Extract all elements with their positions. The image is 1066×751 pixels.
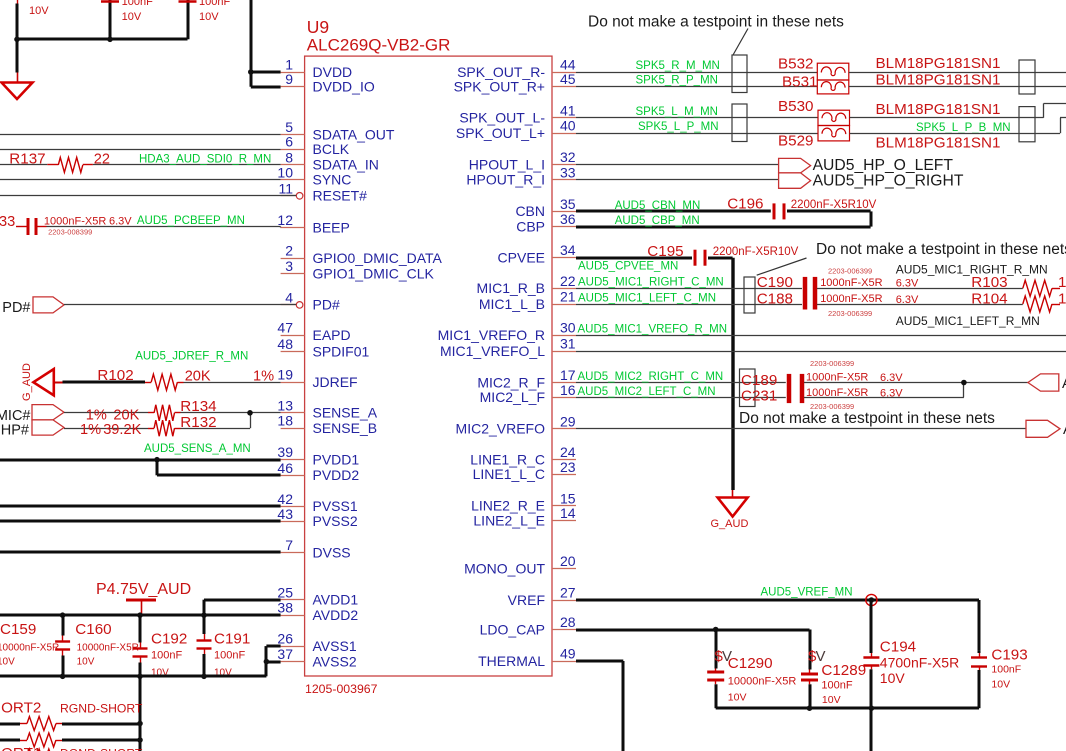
svg-text:100nF: 100nF [199,0,230,8]
pin 17 MIC2_R_F [477,367,576,390]
net SPK5_L_P_MN [638,121,719,133]
svg-text:SPK_OUT_L+: SPK_OUT_L+ [456,125,545,141]
part number 2203-006399 d [810,402,854,411]
wire THERMAL [576,661,623,751]
capacitor lead top-left C(10V) [16,0,19,39]
svg-text:SENSE_A: SENSE_A [313,405,378,421]
svg-text:PD#: PD# [2,300,30,316]
junction bottom bus C160 [60,674,66,680]
wire RGND b [62,739,140,742]
label B532 [778,56,813,73]
pointer line 1 [733,29,748,56]
wire CPVEE to ground [708,258,733,490]
pointer line 2 [757,258,807,275]
pin 5 SDATA_OUT [281,119,395,142]
svg-text:10000nF-X5R: 10000nF-X5R [728,676,797,688]
svg-text:C195: C195 [647,243,683,260]
svg-text:36: 36 [560,211,576,227]
IC U9 ALC269Q-VB2-GR body [305,56,552,676]
svg-text:6: 6 [285,134,293,150]
svg-text:28: 28 [560,614,576,630]
pin 14 LINE2_L_E [473,505,576,528]
svg-text:JDREF: JDREF [313,374,358,390]
svg-text:9: 9 [285,71,293,87]
pin 40 SPK_OUT_L+ [456,118,576,141]
svg-text:26: 26 [277,631,293,647]
net SPK5_L_P_B_MN [916,122,1011,134]
wire CPVEE [576,257,692,260]
wire MIC2_R a [576,382,786,384]
svg-text:27: 27 [560,585,576,601]
label 1% 20K R134 [86,398,217,423]
pin 7 DVSS [281,537,351,560]
svg-text:P4.75V_AUD: P4.75V_AUD [96,581,191,598]
pin 49 THERMAL [478,646,576,669]
svg-text:33: 33 [560,164,576,180]
port PD# [2,297,64,316]
net SPK5_R_P_MN [636,75,718,87]
svg-text:46: 46 [277,460,293,476]
wire to pin 9 [251,86,281,89]
svg-text:RESET#: RESET# [313,188,368,204]
svg-text:C193: C193 [991,647,1027,664]
net SPK5_R_M_MN [636,60,720,72]
svg-text:10V: 10V [122,11,142,23]
svg-text:1: 1 [285,57,293,73]
svg-text:R137: R137 [9,151,45,168]
pin 42 PVSS1 [277,491,357,514]
svg-text:PVSS2: PVSS2 [313,513,358,529]
part number 1205-003967 [305,682,378,696]
svg-text:4: 4 [285,289,293,305]
note do-not-testpoint 3 [739,410,995,427]
svg-text:10: 10 [277,164,293,180]
svg-text:1000nF-X5R: 1000nF-X5R [820,293,882,305]
svg-text:17: 17 [560,367,576,383]
svg-text:C191: C191 [214,631,250,648]
wire SPK_OUT_L+ a [576,133,818,135]
svg-text:U9: U9 [307,17,329,37]
svg-text:A: A [1062,376,1066,392]
svg-text:SENSE_B: SENSE_B [313,420,378,436]
svg-text:LINE2_L_E: LINE2_L_E [473,512,545,528]
svg-text:AUD5_CBN_MN: AUD5_CBN_MN [615,200,701,212]
wire G_AUD to R102 [63,381,146,384]
svg-text:MIC1_VREFO_L: MIC1_VREFO_L [440,343,545,359]
pin 48 SPDIF01 [277,336,369,359]
svg-text:24: 24 [560,444,576,460]
svg-text:10V: 10V [991,679,1010,691]
svg-text:41: 41 [560,102,576,118]
junction DVDD [248,69,254,75]
net-tie NT6 [740,369,756,407]
svg-text:AVSS1: AVSS1 [313,638,357,654]
port HP# [1,420,64,439]
net AUD5_PCBEEP_MN [137,215,245,227]
svg-text:C188: C188 [757,290,793,307]
svg-text:C1290: C1290 [728,655,773,672]
label 1% 39.2K R132 [80,414,217,438]
svg-text:ALC269Q-VB2-GR: ALC269Q-VB2-GR [307,36,451,55]
refdes U9 label [307,17,451,55]
junction bottom C194 [869,705,875,711]
svg-text:SPK5_L_P_MN: SPK5_L_P_MN [638,121,719,133]
value 33 of C133 [0,214,15,230]
value 1K 1K [1058,274,1066,307]
part number 2203-006399 a [828,267,872,276]
label BLM18PG181SN1 4 [876,135,1001,152]
svg-text:43: 43 [277,506,293,522]
svg-text:49: 49 [560,646,576,662]
svg-text:38: 38 [277,600,293,616]
wire BCLK [0,149,281,151]
label BLM18PG181SN1 1 [876,55,1001,72]
svg-text:10000nF-X5R: 10000nF-X5R [77,643,139,654]
svg-text:PVDD1: PVDD1 [313,452,360,468]
capacitor C195 [695,250,705,266]
svg-text:SPK5_L_P_B_MN: SPK5_L_P_B_MN [916,122,1011,134]
net AUD5_SENS_A_MN [144,443,251,455]
pin 10 SYNC [277,164,351,187]
wire PVDD2 drop [157,460,281,476]
capacitor C160 [55,615,70,676]
resistor RGND-SHORT a [0,717,62,731]
svg-text:1K: 1K [1058,274,1066,291]
svg-text:PVDD2: PVDD2 [313,467,360,483]
wire JDREF [184,382,281,384]
svg-text:48: 48 [277,336,293,352]
svg-text:32: 32 [560,149,576,165]
capacitor C194 [863,600,879,708]
svg-text:BEEP: BEEP [313,219,350,235]
wire VREF bottom bus [716,707,979,710]
junction AVDD bus C192 [137,612,143,618]
label RSHORT2 [0,700,41,717]
svg-text:1%: 1% [80,422,101,438]
value 1000nF-X5R 6.3V c [806,372,903,385]
wire SPK_OUT_R- b [849,72,1066,74]
wire MIC# to R134 [64,412,148,414]
pin 8 SDATA_IN [281,149,379,172]
svg-text:100nF: 100nF [122,0,153,8]
resistor R137 [47,157,93,172]
pin 37 AVSS2 [277,646,356,669]
pin 32 HPOUT_L_I [469,149,576,172]
svg-text:10V: 10V [822,694,841,706]
svg-text:LDO_CAP: LDO_CAP [480,621,545,637]
svg-text:39: 39 [277,444,293,460]
wire RGND vertical [139,676,142,751]
pin 27 VREF [508,585,576,608]
label C191 [214,631,250,679]
net AUD5_MIC2_LEFT_C_MN [578,386,716,398]
svg-text:3: 3 [285,258,293,274]
resistor RGND-SHORT b [0,733,62,747]
svg-text:37: 37 [277,646,293,662]
pin 11 RESET# [278,180,367,203]
wire SPK_OUT_L+ b [850,118,1066,134]
svg-text:2203-006399: 2203-006399 [810,359,854,368]
svg-text:B531: B531 [782,74,817,91]
svg-text:34: 34 [560,242,576,258]
svg-text:SYNC: SYNC [313,172,352,188]
svg-text:13: 13 [277,397,293,413]
svg-text:15: 15 [560,490,576,506]
svg-text:BCLK: BCLK [313,141,350,157]
junction LDO_CAP C1290 [713,627,719,633]
wire MIC2_L a [576,397,786,399]
wire HPOUT_L_I [576,164,779,166]
svg-text:AVSS2: AVSS2 [313,653,357,669]
capacitor C193 [971,650,987,708]
svg-text:AUD5_CBP_MN: AUD5_CBP_MN [615,215,700,227]
svg-text:VREF: VREF [508,592,545,608]
pin 12 BEEP [277,212,349,235]
pin 34 CPVEE [498,242,576,265]
value 100nF 10V [122,0,153,23]
wire MIC1_L b [817,304,1023,306]
label BLM18PG181SN1 3 [876,101,1001,118]
net AUD5_CBN_MN [615,200,701,212]
svg-text:1205-003967: 1205-003967 [305,682,378,696]
label AUD5_MIC1_RIGHT_R_MN [896,263,1048,277]
svg-text:MONO_OUT: MONO_OUT [464,560,545,576]
capacitor C1289 [801,666,818,708]
svg-text:10V: 10V [880,670,906,686]
wire SPK_OUT_R+ b [849,86,1066,88]
svg-text:PD#: PD# [313,297,340,313]
svg-text:LINE1_L_C: LINE1_L_C [473,466,545,482]
label B531 [782,74,817,91]
svg-text:BLM18PG181SN1: BLM18PG181SN1 [876,55,1001,72]
wire RGND a [62,723,140,726]
svg-text:MIC2_L_F: MIC2_L_F [480,389,545,405]
wire DVDD vertical [250,0,253,87]
resistor R132 [148,420,181,436]
value 1000nF-X5R 6.3V d [806,387,903,400]
label R137 22 [9,151,110,168]
svg-text:EAPD: EAPD [313,327,351,343]
wire ground drop [16,39,20,82]
capacitor C133 BEEP [16,218,47,235]
wire AVSS1 AVSS2 riser [266,646,281,676]
label C190 C188 [757,274,793,307]
svg-text:33: 33 [0,214,15,230]
pin 35 CBN [515,196,576,219]
value 1000nF-X5R 6.3V [44,216,132,228]
junction AVDD bus C160 [60,612,66,618]
svg-text:AUD5_MIC1_LEFT_R_MN: AUD5_MIC1_LEFT_R_MN [896,314,1040,328]
svg-text:SPK5_R_P_MN: SPK5_R_P_MN [636,75,718,87]
svg-text:4700nF-X5R: 4700nF-X5R [880,655,959,671]
capacitor top C(100nF) lead [101,0,119,39]
svg-text:HPOUT_R_I: HPOUT_R_I [466,172,545,188]
pin 19 JDREF [277,367,357,390]
pin 28 LDO_CAP [480,614,576,637]
svg-text:21: 21 [560,289,576,305]
svg-text:HDA3_AUD_SDI0_R_MN: HDA3_AUD_SDI0_R_MN [139,154,271,166]
svg-text:10V: 10V [29,5,49,17]
capacitor C191 [197,600,212,677]
svg-text:12: 12 [277,212,293,228]
svg-text:LINE1_R_C: LINE1_R_C [470,451,545,467]
value 2200nF-X5R10V C195 [713,246,799,258]
junction MIC2 [961,380,967,386]
svg-text:DVDD_IO: DVDD_IO [313,79,375,95]
net AUD5_MIC1_LEFT_C_MN [578,292,716,304]
wire LDO_CAP [576,630,810,667]
label RGND-SHORT [60,702,143,716]
wire CBP [576,226,871,229]
svg-text:AUD5_SENS_A_MN: AUD5_SENS_A_MN [144,443,251,455]
svg-text:44: 44 [560,57,576,73]
junction top bus left [14,37,20,43]
pin 22 MIC1_R_B [477,273,576,296]
svg-text:18: 18 [277,413,293,429]
svg-text:B530: B530 [778,98,813,115]
label C192 [151,631,187,679]
pin 44 SPK_OUT_R- [457,57,576,80]
svg-text:C1289: C1289 [821,662,866,679]
wire CBN right [787,211,871,227]
pin 1 DVDD [281,57,353,80]
net AUD5_CPVEE_MN [578,261,678,273]
svg-text:14: 14 [560,505,576,521]
ferrite bead B531 [817,80,849,94]
svg-text:AUD5_CPVEE_MN: AUD5_CPVEE_MN [578,261,678,273]
pin 45 SPK_OUT_R+ [454,71,576,94]
svg-text:2200nF-X5R10V: 2200nF-X5R10V [791,199,877,211]
pin 3 GPIO1_DMIC_CLK [281,258,435,281]
svg-text:AUD5_PCBEEP_MN: AUD5_PCBEEP_MN [137,215,245,227]
wire HP# to R132 [64,428,148,430]
value 10V [29,5,49,17]
capacitor C196 [774,203,784,219]
wire PVSS1 [0,505,281,508]
svg-text:R103: R103 [971,274,1007,291]
wire DVSS [0,551,281,554]
resistor R104 [1023,296,1060,312]
label B530 [778,98,813,115]
svg-text:16: 16 [560,382,576,398]
wire AVSS bottom bus [0,675,266,678]
wire R132 up [181,413,251,429]
resistor R103 [1023,280,1060,296]
junction bottom bus C191 [201,674,207,680]
port MIC# [0,405,64,424]
svg-text:Do not make a testpoint in the: Do not make a testpoint in these nets [816,241,1066,258]
svg-text:BLM18PG181SN1: BLM18PG181SN1 [876,135,1001,152]
svg-text:RSHORT2: RSHORT2 [0,700,41,717]
net AUD5_JDREF_R_MN [135,351,248,363]
svg-text:2203-008399: 2203-008399 [48,228,92,237]
label C159 10000nF-X5R 10V [0,621,59,668]
note do-not-testpoint 1 [588,14,844,31]
net AUD5_VREF_MN [761,587,853,599]
wire BEEP [47,227,282,228]
wire PD# [64,304,296,306]
port AUD5_HP_O_RIGHT [779,173,964,190]
svg-text:47: 47 [277,320,293,336]
svg-text:10V: 10V [199,11,219,23]
pin 30 MIC1_VREFO_R [438,320,576,343]
pin 47 EAPD [277,320,350,343]
svg-text:RSHORT1: RSHORT1 [0,745,41,751]
svg-text:100nF: 100nF [821,680,852,692]
wire MIC2_L b [804,383,964,398]
pin 24 LINE1_R_C [470,444,576,467]
junction VREF C194 [869,597,875,603]
wire SDATA_OUT [0,134,281,136]
svg-text:THERMAL: THERMAL [478,653,545,669]
svg-text:10V: 10V [77,657,95,668]
svg-text:CPVEE: CPVEE [498,250,545,266]
svg-text:7: 7 [285,537,293,553]
wire PVSS2 [0,520,281,523]
pin 46 PVDD2 [277,460,359,483]
svg-text:AUD5_VREF_MN: AUD5_VREF_MN [761,587,853,599]
wire C1290 drop [715,630,718,667]
svg-text:AVDD2: AVDD2 [313,607,359,623]
wire MIC1_R b [817,288,1023,290]
pin 20 MONO_OUT [464,553,576,576]
wire SPK_OUT_R+ a [576,86,817,88]
svg-text:AVDD1: AVDD1 [313,592,359,608]
svg-text:100nF: 100nF [214,650,245,662]
port MIC2_VREFO off-page [1026,420,1066,438]
net-tie NT5 [744,277,755,313]
wire top-left bus [17,38,188,41]
wire to pin 1 [251,71,281,74]
pin 18 SENSE_B [277,413,377,436]
label R102 20K 1% [97,367,274,385]
svg-text:6.3V: 6.3V [896,278,919,290]
svg-text:C190: C190 [757,274,793,291]
pin 23 LINE1_L_C [473,459,576,482]
svg-text:DVSS: DVSS [313,544,351,560]
ground G_AUD bottom stub [732,490,734,498]
svg-text:10V: 10V [728,692,747,704]
svg-text:29: 29 [560,413,576,429]
label RSHORT1 clipped [0,745,143,751]
svg-text:25: 25 [277,584,293,600]
junction AVDD bus C191 [201,612,207,618]
label C1289 [821,662,866,706]
pin 13 SENSE_A [277,397,377,420]
svg-text:MIC1_R_B: MIC1_R_B [477,280,545,296]
net-tie NT2 [732,104,747,142]
svg-text:C192: C192 [151,631,187,648]
junction bottom bus C192 [137,674,143,680]
svg-text:SPK5_R_M_MN: SPK5_R_M_MN [636,60,720,72]
pin 2 GPIO0_DMIC_DATA [281,243,443,266]
wire MIC1_VREFO_L [576,351,1066,353]
value 1000nF-X5R 6.3V a [820,277,919,290]
power symbol P4.75V_AUD [96,581,191,615]
svg-text:22: 22 [94,152,110,168]
svg-text:G_AUD: G_AUD [21,363,33,401]
wire SPK_OUT_R- a [576,72,817,74]
wire HPOUT_R_I [576,179,779,181]
svg-text:42: 42 [277,491,293,507]
svg-text:39.2K: 39.2K [103,422,141,438]
svg-text:19: 19 [277,367,293,383]
svg-text:1K: 1K [1058,290,1066,307]
label C196 [727,196,763,213]
wire SYNC [0,179,281,181]
net AUD5_CBP_MN [615,215,700,227]
junction AVSS2 [264,659,270,665]
